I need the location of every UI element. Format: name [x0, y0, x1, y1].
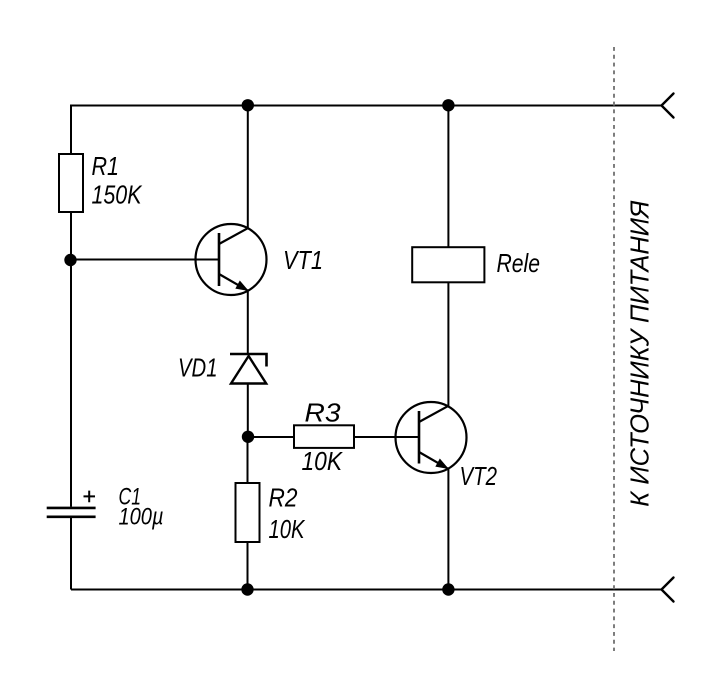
wire top rail down to Rele — [447, 106, 449, 248]
svg-text:К ИСТОЧНИКУ ПИТАНИЯ: К ИСТОЧНИКУ ПИТАНИЯ — [625, 200, 655, 506]
wire VT1 base — [71, 259, 219, 261]
resistor R2 — [236, 483, 260, 542]
svg-text:R2: R2 — [269, 483, 298, 513]
relay Rele coil — [412, 247, 484, 282]
node top rail left junction — [242, 99, 254, 111]
resistor R1 — [59, 154, 83, 212]
svg-text:VT2: VT2 — [460, 461, 498, 491]
node bottom rail right junction — [442, 583, 454, 595]
wire left rail middle (R1 to C1) — [70, 212, 72, 507]
wire left rail upper (top rail to R1) — [70, 105, 72, 155]
resistor R3 — [294, 425, 354, 448]
transistor VT2 — [396, 402, 467, 473]
svg-text:R3: R3 — [305, 397, 342, 427]
wire R2 to bottom rail — [247, 542, 249, 590]
transistor VT1 — [196, 224, 267, 295]
dashed separator line — [613, 47, 615, 651]
node R2 R3 junction — [242, 431, 254, 443]
wire left rail lower (C1 to bottom rail) — [70, 517, 72, 590]
svg-text:10K: 10K — [302, 446, 344, 476]
wire top rail — [71, 105, 662, 107]
node base tap junction — [64, 254, 76, 266]
wire bottom rail — [71, 589, 662, 591]
svg-text:150K: 150K — [92, 180, 143, 210]
svg-text:Rele: Rele — [497, 248, 541, 278]
wire junction to R3 — [248, 436, 294, 438]
wire VT2 collector (Rele down to VT2) — [447, 282, 449, 406]
svg-text:VD1: VD1 — [178, 353, 218, 383]
wire VT1 collector (top rail down to VT1) — [247, 106, 249, 229]
connector chevron bottom (to power source) — [662, 578, 674, 602]
svg-text:VT1: VT1 — [283, 245, 323, 275]
svg-text:R1: R1 — [92, 151, 120, 181]
connector chevron top (to power source) — [662, 94, 674, 118]
capacitor C1 — [47, 491, 96, 517]
wire VD1 to junction node — [247, 384, 249, 438]
diode VD1 zener — [230, 354, 267, 384]
node bottom rail left junction — [241, 583, 253, 595]
wire VT2 emitter (VT2 down to bottom rail) — [447, 468, 449, 589]
node top rail right junction — [442, 99, 454, 111]
wire VT1 emitter (VT1 down to VD1) — [247, 291, 249, 355]
svg-text:100µ: 100µ — [119, 504, 164, 531]
wire R3 to VT2 base — [354, 436, 419, 438]
wire junction to R2 — [247, 437, 249, 483]
svg-text:10K: 10K — [269, 514, 306, 544]
